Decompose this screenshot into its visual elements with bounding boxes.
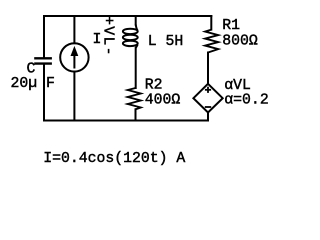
wire between inductor and R2 [135, 48, 137, 88]
svg-text:R1: R1 [222, 18, 240, 34]
svg-text:20µ F: 20µ F [11, 76, 55, 92]
wire diamond to bottom bus [207, 113, 209, 121]
wire R2 to bottom bus [135, 109, 137, 120]
inductor L coil [123, 25, 138, 48]
wire left branch upper [43, 16, 45, 58]
minus sign inside diamond [205, 106, 211, 108]
capacitor C1 plates [34, 58, 52, 63]
current source arrow [71, 46, 79, 69]
svg-text:αVL: αVL [224, 78, 251, 94]
wire current source bottom [73, 72, 75, 121]
svg-text:I=0.4cos(120t) A: I=0.4cos(120t) A [43, 151, 185, 167]
wire inductor branch top [135, 16, 137, 25]
wire top bus [44, 15, 211, 17]
current source I circle [60, 43, 88, 71]
svg-text:+VL-: +VL- [99, 16, 115, 57]
plus sign inside diamond [205, 87, 211, 93]
wire R1 branch top [210, 16, 212, 30]
svg-text:800Ω: 800Ω [222, 34, 258, 50]
dependent source U1 diamond [193, 84, 222, 113]
wire R1 to diamond [207, 53, 209, 84]
wire bottom bus [44, 120, 208, 122]
resistor R2 zigzag [128, 88, 141, 109]
wire left branch lower [43, 64, 45, 121]
wire current source top [73, 16, 75, 43]
svg-text:α=0.2: α=0.2 [224, 93, 268, 109]
svg-text:R2: R2 [145, 77, 163, 93]
svg-text:400Ω: 400Ω [145, 93, 181, 109]
svg-text:L 5H: L 5H [148, 34, 184, 50]
resistor R1 zigzag [205, 30, 218, 53]
